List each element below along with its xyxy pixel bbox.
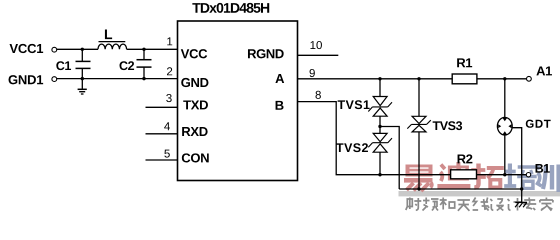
pin number 1 (167, 37, 172, 45)
pin label A (275, 74, 284, 83)
pin number 3 (166, 94, 171, 102)
capacitor C1 (56, 49, 90, 78)
TVS2 bidirectional suppressor (336, 133, 392, 174)
watermark slogan char 7 (ji) (508, 198, 522, 211)
IC U1 TDx01D485H body (178, 21, 298, 181)
watermark logo char 5 (xun, blue) (537, 165, 559, 193)
pin label CON (182, 153, 209, 162)
node GDT top on A line (503, 77, 506, 80)
watermark logo char 2 (di, salmon) (437, 162, 470, 189)
node GDT bottom on B line (503, 173, 506, 176)
wire pin3 stub TXD (146, 106, 178, 108)
watermark logo char 1 (yi, salmon) (404, 165, 433, 192)
terminal A1 (527, 66, 552, 81)
pin number 9 (310, 69, 315, 77)
watermark slogan char 1 (she) (406, 198, 422, 211)
pin label B (276, 101, 284, 110)
resistor R2 (451, 154, 477, 178)
inductor L (98, 29, 127, 49)
ground (left, on GND rail) (78, 79, 87, 94)
pin number 5 (164, 150, 169, 158)
watermark slogan char 5 (xian) (473, 198, 490, 211)
watermark slogan char 2 (pin) (423, 198, 439, 211)
wire pin10 stub RGND (298, 54, 339, 56)
node TVS1 top on A line (378, 77, 381, 80)
pin number 4 (164, 122, 170, 130)
pin number 10 (310, 41, 321, 49)
node C2-VCC junction (142, 48, 145, 51)
gas discharge tube GDT (497, 79, 550, 203)
IC title label TDx01D485H (192, 3, 269, 13)
wire GND1 to pin2 (GND rail) (57, 78, 178, 80)
watermark slogan char 4 (tian) (457, 200, 470, 211)
wire ground rail (399, 188, 522, 190)
wire pin5 stub CON (146, 159, 178, 161)
watermark slogan char 8 (zhuan) (523, 198, 536, 211)
wire TVS1/TVS2 midpoint to ground rail (380, 127, 399, 190)
wire VCC1 to pin1 (VCC rail) (57, 48, 178, 50)
pin number 2 (167, 67, 172, 75)
node C1-GND junction (81, 77, 84, 80)
watermark logo char 3 (tuo, salmon) (471, 164, 504, 190)
watermark logo char 4 (pei, blue) (504, 164, 537, 191)
node ground rail to earth lead (520, 187, 523, 190)
pin label GND (181, 78, 208, 87)
node TVS2 bottom on B line (378, 173, 381, 176)
node TVS3 top on A line (417, 77, 420, 80)
pin label RGND (248, 49, 284, 58)
watermark slogan char 6 (she2) (490, 199, 504, 211)
terminal VCC1 (10, 44, 57, 53)
watermark slogan char 9 (jia) (540, 198, 553, 211)
node C1-VCC junction (81, 48, 84, 51)
earth ground (bottom right) (515, 202, 527, 207)
wire A line (pin9 to A1) (298, 78, 527, 80)
terminal B1 (526, 164, 550, 177)
TVS3 bidirectional suppressor (407, 79, 462, 189)
watermark gray band (399, 191, 560, 196)
node TVS3 bottom on ground rail (417, 187, 420, 190)
node C2-GND junction (142, 77, 145, 80)
watermark slogan char 3 (he) (440, 198, 455, 210)
node TVS midpoint junction (378, 125, 381, 128)
resistor R1 (452, 58, 477, 83)
terminal GND1 (9, 75, 57, 84)
pin number 8 (315, 91, 320, 99)
capacitor C2 (120, 49, 152, 78)
pin label VCC (181, 49, 207, 58)
wire pin4 stub RXD (146, 133, 178, 135)
wire B line (pin8 to B1) (298, 102, 527, 175)
pin label RXD (182, 127, 207, 136)
pin label TXD (183, 100, 208, 109)
TVS1 bidirectional suppressor (338, 79, 392, 134)
